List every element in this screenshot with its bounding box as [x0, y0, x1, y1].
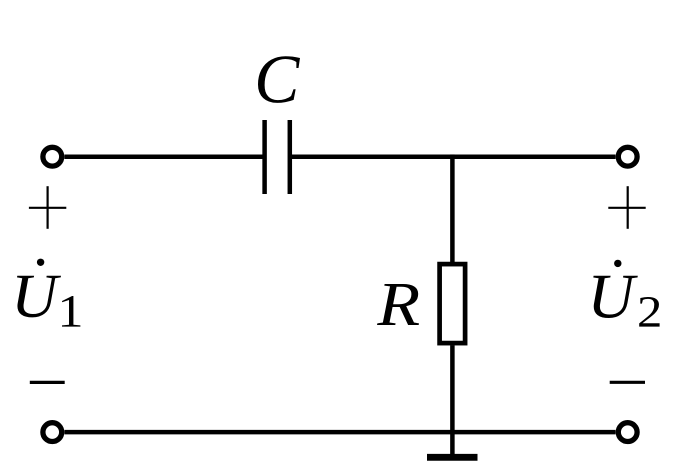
- label R: [377, 284, 419, 325]
- plus sign right: [608, 186, 645, 229]
- node junction top: [450, 154, 455, 159]
- capacitor C plates: [265, 120, 290, 194]
- terminal circle top-right: [618, 147, 637, 166]
- terminal circle top-left: [43, 147, 62, 166]
- plus sign left: [29, 186, 66, 229]
- ground: [427, 454, 478, 461]
- wire top-left (input to capacitor): [64, 154, 264, 159]
- label U2 (right), dot over U: [593, 260, 659, 327]
- wire stub to ground: [450, 432, 455, 454]
- wire vertical upper (node to resistor): [450, 157, 455, 264]
- resistor R body: [440, 264, 466, 343]
- label C: [258, 56, 300, 103]
- terminal circle bottom-right: [618, 423, 637, 442]
- minus sign left: [30, 381, 65, 384]
- wire top-right (capacitor to output): [290, 154, 616, 159]
- minus sign right: [610, 381, 645, 384]
- terminal circle bottom-left: [43, 423, 62, 442]
- bottom wire: [64, 430, 615, 435]
- wire vertical lower (resistor to bottom wire): [450, 345, 455, 432]
- label U1 (left), dot over U: [17, 259, 80, 327]
